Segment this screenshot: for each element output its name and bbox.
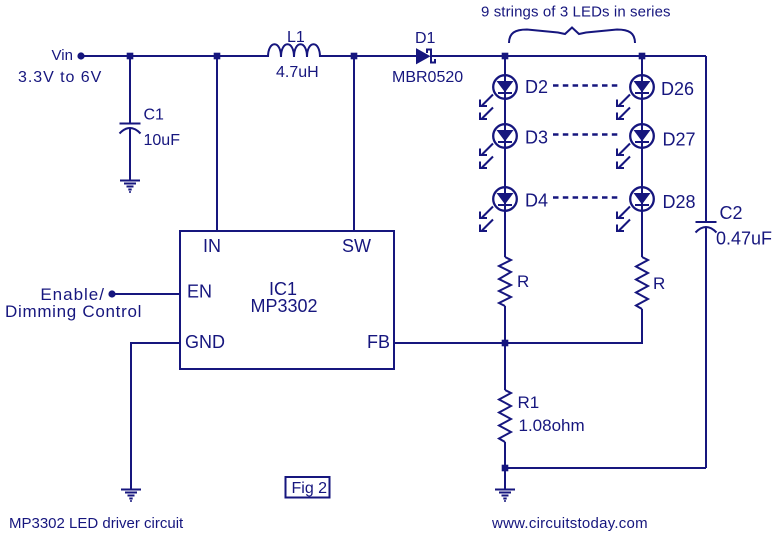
svg-text:Dimming Control: Dimming Control — [5, 302, 142, 321]
label C1 — [144, 107, 165, 124]
junction bottom node — [502, 465, 509, 472]
pin label IN — [203, 236, 221, 256]
svg-text:FB: FB — [367, 332, 390, 352]
svg-text:C1: C1 — [144, 107, 165, 124]
Fig 2 frame — [286, 477, 330, 498]
svg-text:3.3V to 6V: 3.3V to 6V — [18, 69, 102, 86]
svg-text:IN: IN — [203, 236, 221, 256]
op-amp IC1 MP3302 box — [180, 231, 394, 369]
svg-text:4.7uH: 4.7uH — [276, 64, 319, 81]
brace 9 strings annotation — [509, 28, 635, 44]
junction FB node — [502, 340, 509, 347]
wire left LED string — [504, 56, 506, 257]
label D2 — [525, 77, 548, 97]
svg-text:R: R — [653, 274, 665, 293]
LED D2 — [480, 75, 517, 119]
wire right string to FB wire — [505, 309, 642, 343]
junction SW branch — [351, 53, 358, 60]
wire R1 to bottom node — [504, 442, 506, 468]
value MBR0520 — [392, 69, 463, 86]
label D1 — [415, 30, 436, 47]
wire FB node to R1 — [504, 343, 506, 390]
wire IN branch — [216, 56, 218, 231]
diode D1 (Schottky MBR0520) — [417, 49, 436, 64]
value 1.08ohm — [519, 416, 585, 435]
node EN terminal dot — [108, 290, 115, 297]
svg-text:EN: EN — [187, 282, 212, 302]
value 0.47uF — [716, 229, 772, 249]
svg-text:D28: D28 — [663, 192, 696, 212]
svg-text:Vin: Vin — [52, 47, 73, 64]
LED D28 — [617, 187, 654, 231]
svg-text:R1: R1 — [518, 393, 540, 412]
pin label FB — [367, 332, 390, 352]
wire top rail inductor to diode — [320, 55, 417, 57]
wire C1 branch — [129, 56, 131, 123]
svg-text:D26: D26 — [661, 79, 694, 99]
label R1 — [518, 393, 540, 412]
wire bottom return — [505, 467, 706, 469]
resistor R left string — [499, 257, 511, 306]
svg-text:1.08ohm: 1.08ohm — [519, 416, 585, 435]
label MP3302 — [250, 296, 317, 316]
svg-text:R: R — [517, 272, 529, 291]
label D3 — [525, 128, 548, 148]
label L1 — [287, 29, 305, 46]
svg-text:0.47uF: 0.47uF — [716, 229, 772, 249]
label 9 strings of 3 LEDs in series — [481, 4, 671, 21]
svg-text:D1: D1 — [415, 30, 436, 47]
label C2 — [720, 203, 743, 223]
LED D4 — [480, 187, 517, 231]
caption MP3302 LED driver circuit — [9, 515, 184, 532]
svg-text:9 strings of 3 LEDs in series: 9 strings of 3 LEDs in series — [481, 4, 671, 21]
wire top rail Vin to inductor — [84, 55, 268, 57]
ground below GND pin — [121, 490, 141, 503]
svg-text:10uF: 10uF — [144, 132, 181, 149]
LED D3 — [480, 124, 517, 168]
wire right rail lower (C2 to bottom) — [705, 227, 707, 468]
label Enable/ — [40, 285, 105, 304]
wire dashed row 2 — [553, 133, 619, 136]
pin label SW — [342, 236, 371, 256]
svg-text:GND: GND — [185, 332, 225, 352]
wire R to FB node — [504, 306, 506, 343]
wire right LED string — [641, 56, 643, 257]
label D28 — [663, 192, 696, 212]
svg-text:D2: D2 — [525, 77, 548, 97]
wire FB output — [394, 342, 505, 344]
caption www.circuitstoday.com — [491, 515, 648, 532]
junction left string top — [502, 53, 509, 60]
ground below R1 — [495, 490, 515, 503]
label R left — [517, 272, 529, 291]
wire dashed row 3 — [553, 196, 619, 199]
label Vin — [52, 47, 73, 64]
svg-text:SW: SW — [342, 236, 371, 256]
wire C1 to ground — [129, 128, 131, 181]
ground below C1 — [120, 181, 140, 194]
junction right string top — [639, 53, 646, 60]
label D4 — [525, 191, 548, 211]
label D27 — [663, 130, 696, 150]
capacitor C2 — [696, 222, 717, 233]
label IC1 — [269, 279, 297, 299]
label 3.3V to 6V — [18, 69, 102, 86]
label Fig 2 — [292, 480, 328, 497]
junction C1 top — [127, 53, 134, 60]
wire dashed row 1 — [553, 84, 619, 87]
svg-text:Fig 2: Fig 2 — [292, 480, 328, 497]
inductor L1 — [268, 44, 320, 57]
capacitor C1 — [120, 124, 141, 134]
svg-text:MBR0520: MBR0520 — [392, 69, 463, 86]
LED D27 — [617, 124, 654, 168]
label D26 — [661, 79, 694, 99]
resistor R right string — [636, 257, 648, 309]
svg-text:D3: D3 — [525, 128, 548, 148]
pin label GND — [185, 332, 225, 352]
pin label EN — [187, 282, 212, 302]
svg-text:L1: L1 — [287, 29, 305, 46]
svg-text:D4: D4 — [525, 191, 548, 211]
node Vin terminal dot — [77, 52, 84, 59]
label Dimming Control — [5, 302, 142, 321]
wire SW branch — [353, 56, 355, 231]
wire bottom node to ground — [504, 468, 506, 489]
value 10uF — [144, 132, 181, 149]
wire right rail upper (to C2) — [705, 56, 707, 221]
junction IN branch — [214, 53, 221, 60]
value 4.7uH — [276, 64, 319, 81]
svg-text:www.circuitstoday.com: www.circuitstoday.com — [491, 515, 648, 532]
wire top rail diode to right corner — [432, 55, 706, 57]
svg-text:MP3302: MP3302 — [250, 296, 317, 316]
svg-text:C2: C2 — [720, 203, 743, 223]
LED D26 — [617, 75, 654, 119]
wire EN input — [114, 293, 180, 295]
label R right — [653, 274, 665, 293]
svg-text:D27: D27 — [663, 130, 696, 150]
resistor R1 — [499, 390, 511, 442]
svg-text:MP3302 LED driver circuit: MP3302 LED driver circuit — [9, 515, 184, 532]
wire GND to ground — [131, 343, 180, 489]
